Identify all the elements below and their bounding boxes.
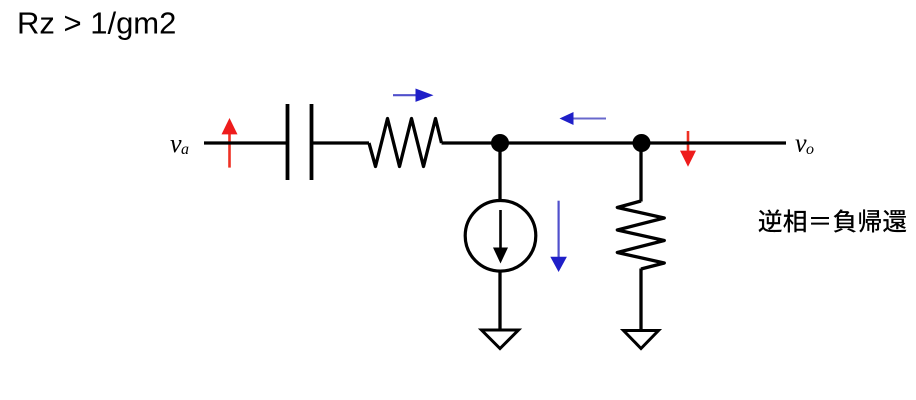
svg-text:Rz > 1/gm2: Rz > 1/gm2 xyxy=(17,6,176,41)
current source gm2*va (circle) xyxy=(465,201,536,272)
wire: capacitor to resistor Rz xyxy=(312,141,370,144)
capacitor C (right plate) xyxy=(310,104,314,180)
title text Rz > 1/gm2 xyxy=(17,6,176,41)
node label v_o xyxy=(795,129,814,159)
node label v_a xyxy=(170,129,189,158)
resistor Rz (horizontal zigzag) xyxy=(369,119,442,167)
ground (under load resistor) xyxy=(624,331,659,349)
wire: node A down to current source xyxy=(498,143,501,201)
wire: node B down to load resistor xyxy=(639,143,642,202)
svg-text:a: a xyxy=(181,141,189,158)
annotation text 逆相=負帰還 xyxy=(758,209,906,232)
red arrow (output voltage, down) xyxy=(680,131,696,167)
ground (under current source) xyxy=(482,330,519,349)
resistor RL (vertical zigzag) xyxy=(617,201,664,269)
current source internal arrow xyxy=(493,210,508,264)
node B (junction dot at load resistor branch) xyxy=(633,134,651,152)
blue arrow (current through Rz, right) xyxy=(393,89,434,102)
red arrow (input voltage, up) xyxy=(222,118,238,168)
wire: input to capacitor xyxy=(204,141,287,144)
wire: current source to ground xyxy=(498,271,501,331)
svg-text:o: o xyxy=(806,141,814,158)
capacitor C (left plate) xyxy=(286,104,290,180)
wire: load resistor to ground xyxy=(639,269,642,332)
blue arrow (current from node B to node A, left) xyxy=(560,112,607,125)
blue arrow (current through source, down) xyxy=(550,201,567,272)
wire: resistor Rz to output v_o xyxy=(442,141,787,144)
node A (junction dot at current source branch) xyxy=(491,134,509,152)
